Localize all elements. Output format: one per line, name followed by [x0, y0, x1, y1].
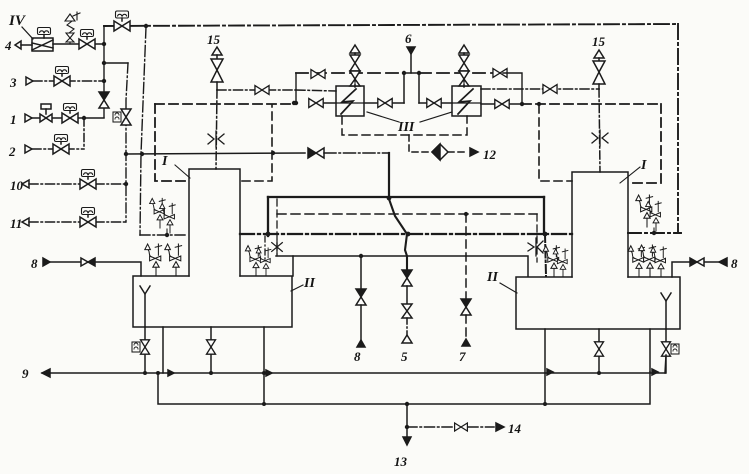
node cluster D: [652, 231, 656, 235]
valve line 14: [455, 423, 468, 431]
corner into box II left: [292, 256, 294, 276]
gauge valve on drop1 left: [132, 340, 150, 354]
header pipe v1: [103, 26, 105, 117]
drop 2 right with valve: [598, 329, 600, 373]
svg-text:8: 8: [731, 256, 738, 271]
pipe line 8 left: [50, 262, 141, 276]
L1 left corner drop: [267, 197, 269, 236]
node L1/L2 left: [266, 232, 271, 237]
instrument cluster D unit2: [646, 201, 662, 231]
arrow line 5: [402, 335, 412, 343]
node c1 c2riser: [156, 371, 160, 375]
line 13 drop: [406, 404, 408, 437]
node line3/v1: [102, 79, 106, 83]
arrow 14: [496, 423, 504, 431]
leader IV: [22, 27, 33, 39]
column I-right top stem (dash-dot): [599, 89, 600, 172]
svg-text:III: III: [397, 120, 415, 135]
instrument cluster A unit1: [150, 198, 166, 228]
svg-text:IV: IV: [8, 13, 27, 29]
motor valve on line 11: [80, 208, 96, 228]
reducer IV: [32, 28, 53, 52]
node riser/dashed: [294, 101, 298, 105]
pipe line 2 (dash-dot): [32, 148, 84, 150]
valve HX2 right: [495, 100, 509, 109]
svg-text:II: II: [486, 270, 498, 285]
line 7 drop (dashed): [465, 214, 467, 299]
node branch/v1: [102, 61, 106, 65]
leader II left: [291, 285, 303, 291]
node line8mid: [359, 254, 363, 258]
svg-text:7: 7: [459, 349, 466, 364]
valve on drop2 right: [595, 342, 604, 356]
leader I left: [175, 165, 190, 178]
node cluster A stem: [165, 233, 169, 237]
instrument cluster E unit3: [651, 247, 667, 277]
svg-text:9: 9: [22, 366, 29, 381]
strainer Y right: [661, 293, 671, 329]
flow arrow c1 b: [266, 370, 272, 376]
valve on bypass left: [311, 70, 325, 79]
svg-text:5: 5: [401, 349, 408, 364]
enclosure border right (dash-dot): [677, 24, 679, 233]
water line y256: [276, 256, 528, 276]
instrument cluster C unit2: [256, 248, 271, 276]
header L1 between columns: [268, 196, 544, 198]
svg-text:2: 2: [8, 144, 16, 159]
node y104 right: [520, 102, 524, 106]
arrow line 8 mid: [357, 340, 365, 347]
node border/v3: [144, 24, 148, 28]
arrow line 7: [462, 339, 470, 346]
pipe line 11 (dash-dot): [29, 221, 126, 223]
pipe HX2 right lower: [481, 103, 522, 105]
drop 4 right with valve: [665, 329, 667, 373]
drop 3 left with valve: [210, 327, 212, 373]
bypass line y73 (dashed): [296, 72, 404, 74]
check valve line 8 mid: [356, 289, 366, 305]
heavy drop to box II right (dash-dot): [545, 234, 546, 276]
spray tap symbol mid right: [528, 238, 543, 256]
valve stack 15 right: [593, 58, 605, 89]
svg-text:8: 8: [31, 256, 38, 271]
line 14 (dash-dot): [407, 426, 494, 428]
dashed wall left notch: [155, 104, 188, 181]
svg-text:II: II: [303, 276, 315, 291]
svg-text:12: 12: [483, 147, 497, 162]
valve HX1 left: [309, 99, 323, 108]
arrow line 4: [15, 41, 21, 49]
instrument cluster F unit2: [553, 249, 568, 277]
check valve line 8 right: [690, 258, 704, 266]
node dashed wall right: [537, 102, 541, 106]
heat exchanger HX2: [452, 86, 481, 116]
node c2 drop1R: [543, 402, 547, 406]
instrument cluster B unit2: [165, 244, 182, 276]
column I-left top stem (dash-dot): [216, 90, 217, 169]
svg-text:15: 15: [592, 34, 606, 49]
deaerator box II right: [516, 277, 680, 329]
impulse line v3 (dash-dot): [140, 27, 146, 235]
svg-text:13: 13: [394, 454, 408, 469]
collector1 right end riser: [665, 355, 666, 373]
L1 right corner drop: [543, 197, 545, 234]
check valve line 5: [402, 270, 412, 286]
instrument cluster E unit1: [628, 246, 644, 277]
valve V-top on border: [114, 11, 130, 31]
flow arrow c1 d: [652, 369, 658, 375]
pipe y73 mid: [404, 72, 419, 74]
enclosure border top (dash-dot): [104, 24, 678, 26]
vent arrow 15 left: [212, 47, 222, 55]
steam line 15R (dash-dot): [481, 88, 599, 90]
blowdown dashed U under HXs: [342, 116, 467, 135]
valve on bypass right: [493, 69, 507, 78]
node feed/L1: [387, 196, 392, 201]
instrument cluster C unit1: [245, 246, 261, 276]
bypass line y73 right (dashed): [419, 72, 503, 74]
node L2/line5: [406, 232, 411, 237]
branch v1 to v2: [104, 62, 128, 64]
steam line 15L to riser (dash-dot): [217, 89, 296, 91]
drop 3 right: [649, 329, 651, 372]
stem 6: [410, 54, 412, 73]
riser HX1 right: [403, 73, 405, 103]
instrument cluster F unit1: [543, 246, 559, 277]
spray tap symbol right: [592, 130, 608, 146]
leader III to HX1: [367, 112, 399, 122]
column I right: [572, 172, 628, 277]
signal line to border bottom right: [628, 232, 681, 234]
motor valve on line 3: [54, 67, 70, 87]
instrument cluster A unit2: [160, 203, 176, 233]
right corner of dashed y214: [536, 214, 538, 262]
dashed mid line y214: [277, 213, 537, 215]
leader I right: [620, 167, 640, 183]
riser line1-line2 (dash-dot): [83, 118, 85, 149]
instrument cluster E unit2: [639, 245, 656, 277]
cluster D stem to node: [653, 228, 655, 233]
svg-text:8: 8: [354, 349, 361, 364]
gauge drop left of star (dash-dot): [264, 236, 266, 259]
pipe line 8 right: [672, 262, 719, 277]
leader II right: [500, 283, 517, 293]
node 6/y73: [402, 71, 406, 75]
flow arrow c1 a: [168, 370, 174, 376]
pipe line 8 mid lower: [360, 305, 362, 340]
valve stack 15 left: [211, 55, 223, 90]
riser x296: [295, 73, 297, 103]
pipe line 1: [32, 117, 104, 119]
motor valve on line 10: [80, 170, 96, 190]
node line14 tap: [405, 425, 409, 429]
drop line v2 (dash-dot): [126, 63, 128, 222]
valve on 15L steam line: [255, 86, 269, 95]
node line154 mid: [271, 151, 275, 155]
drop 2 left: [162, 327, 164, 373]
node 6/y73 b: [417, 71, 421, 75]
pipe line 5 lower (dash-dot): [406, 318, 408, 335]
node c1 drop2R: [597, 371, 601, 375]
condensate dashed line left y104: [155, 103, 294, 105]
HX1 relief stack: [350, 45, 360, 87]
pipe line 3 (dash-dot): [33, 80, 104, 82]
svg-text:3: 3: [9, 75, 17, 90]
pipe to arrow 12 (dashed): [448, 151, 468, 153]
arrow 13: [403, 437, 411, 445]
supply arrow 8 left: [43, 258, 50, 266]
strainer Y left: [140, 286, 150, 327]
pipe line 7 lower (dashed): [465, 315, 467, 339]
node c2 line13: [405, 402, 409, 406]
node v2/line154: [124, 152, 128, 156]
valve HX2 left: [427, 99, 441, 108]
leader III to HX2: [420, 112, 452, 122]
end arrow 9: [42, 369, 50, 377]
collector 1: [42, 372, 665, 374]
arrow 12: [470, 148, 478, 156]
condensate dashed line right y104: [522, 103, 661, 105]
check valve on line y154: [308, 148, 324, 158]
header line y154: [126, 153, 305, 154]
instrument cluster D unit1: [636, 195, 653, 227]
arrow line 1: [25, 114, 32, 122]
motor valve on line 1: [62, 104, 78, 124]
pipe HX1 right: [364, 102, 404, 104]
pipe y154 to feed corner (dash-dot): [324, 152, 389, 154]
cluster A stem to node: [166, 229, 168, 235]
svg-text:4: 4: [4, 38, 12, 53]
collector 2: [158, 372, 650, 404]
node v3/line154: [140, 152, 144, 156]
bypass right corner: [503, 73, 522, 104]
gauge valve on drop4 right: [662, 342, 680, 356]
svg-text:1: 1: [10, 112, 17, 127]
svg-text:14: 14: [508, 421, 522, 436]
motor valve on line 2: [53, 135, 69, 155]
left tap vertical x277: [276, 199, 278, 256]
arrow line 2: [25, 145, 32, 153]
safety valve on line 4: [65, 12, 80, 44]
hand valve on line 1: [40, 104, 52, 122]
drop 4 left: [263, 327, 265, 404]
feed line 5 drop: [389, 199, 407, 270]
motor valve on line 4: [79, 30, 95, 50]
drop 1 right: [544, 329, 546, 404]
heat exchanger HX1: [336, 86, 364, 116]
supply arrow 6: [407, 47, 415, 54]
dropper HX2 left: [418, 73, 420, 103]
drop 1 left with valve: [144, 327, 146, 373]
stub to sampler 12 (dashed): [409, 135, 430, 152]
pipe line 5: [406, 286, 408, 304]
svg-text:11: 11: [10, 216, 22, 231]
dashed wall right notch: [630, 104, 661, 183]
line 8 mid drop: [360, 256, 362, 289]
check valve on v1: [99, 92, 109, 108]
impulse elbow to column I left (dash-dot): [140, 234, 186, 236]
end arrow 8 right: [719, 258, 727, 266]
vent arrow 15 right: [594, 50, 604, 58]
node c1 drop1: [143, 371, 147, 375]
arrow line 10: [22, 180, 29, 188]
node drop4/collector1: [262, 371, 266, 375]
pipe into HX1: [324, 102, 336, 104]
node L1/L2 right: [543, 232, 548, 237]
spray tap symbol left: [208, 131, 224, 147]
column I left: [189, 169, 240, 276]
valve on 15R steam line: [543, 85, 557, 94]
valve line 5: [402, 304, 412, 318]
svg-text:I: I: [640, 158, 647, 173]
dashed stub left of column I-right: [539, 105, 572, 181]
node v2/line10: [124, 182, 128, 186]
instrument cluster B unit1: [145, 244, 162, 276]
flow arrow c1 c: [547, 369, 553, 375]
node c1 drop3: [209, 371, 213, 375]
node line7 tap: [464, 212, 468, 216]
check valve line 8 left: [81, 258, 95, 266]
svg-text:I: I: [161, 154, 168, 169]
pipe HX2 left: [419, 102, 452, 104]
HX2 relief stack: [459, 45, 469, 87]
node line1: [82, 116, 86, 120]
node line4/v1: [102, 42, 106, 46]
deaerator box II left: [133, 276, 292, 327]
node y104/HX1 feed: [292, 101, 296, 105]
svg-text:10: 10: [10, 178, 24, 193]
node c2 drop4L: [262, 402, 266, 406]
dashed stub right of column I-left: [242, 105, 272, 181]
arrow line 3: [26, 77, 33, 85]
feed drop to L1: [388, 153, 390, 199]
pipe line 4: [21, 44, 104, 45]
svg-text:6: 6: [405, 31, 412, 46]
svg-text:15: 15: [207, 32, 221, 47]
pipe line 10 (dash-dot): [29, 183, 126, 185]
star tap symbol left: [272, 240, 283, 254]
valve on drop3 left: [207, 340, 216, 354]
valve HX1 right: [378, 99, 392, 108]
gauge valve on v2: [113, 109, 131, 125]
pipe HX1 upper left port: [296, 90, 336, 91]
sampler diamond 12: [432, 144, 448, 160]
header L2 dash-dot between columns: [240, 233, 572, 235]
arrow line 11: [22, 218, 29, 226]
check valve line 7: [461, 299, 471, 315]
